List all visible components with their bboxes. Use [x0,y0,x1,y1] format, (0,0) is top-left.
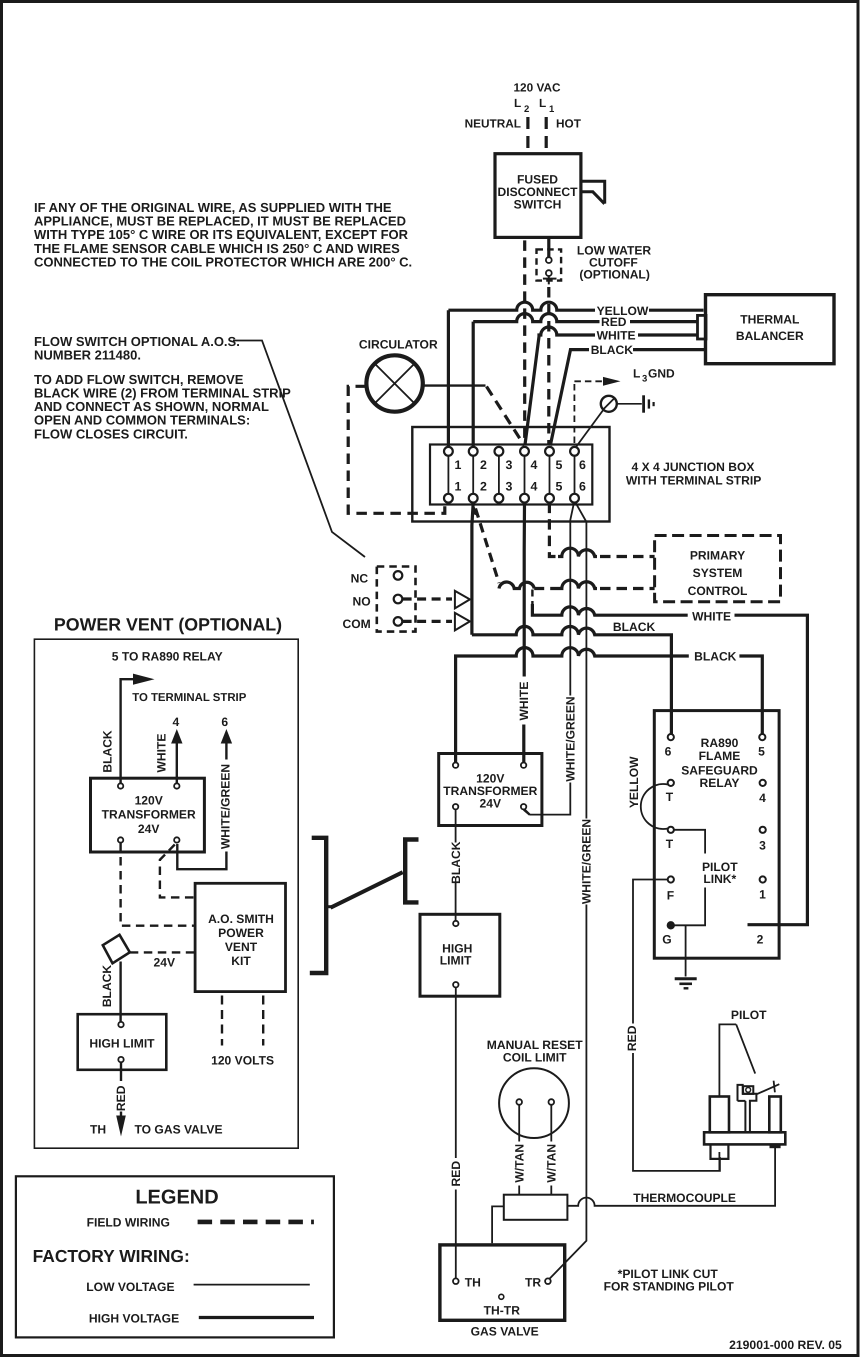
svg-text:CONNECTED TO THE COIL PROTECTO: CONNECTED TO THE COIL PROTECTOR WHICH AR… [34,254,412,269]
svg-text:WHITE/GREEN: WHITE/GREEN [218,764,232,849]
wire white run to RA890 terminal 2 [532,604,807,925]
wire white-green arrow up to 6 [225,742,227,760]
svg-text:1: 1 [759,888,766,902]
pin 5 [759,734,765,740]
wire white arrow up to 4 [176,742,178,784]
power vent high limit terminals [118,1022,123,1027]
svg-text:120 VOLTS: 120 VOLTS [211,1054,274,1068]
svg-text:WHITE: WHITE [692,609,731,623]
ground stud circle [601,396,617,412]
svg-text:4: 4 [531,458,538,472]
svg-text:TH: TH [465,1276,481,1290]
svg-text:POWER VENT (OPTIONAL): POWER VENT (OPTIONAL) [54,615,282,635]
fused disconnect switch box [495,154,581,238]
wire pilot link T to G [674,830,705,926]
pilot left electrode [710,1097,729,1133]
svg-text:BLACK: BLACK [449,841,463,884]
svg-text:RED: RED [449,1161,463,1187]
svg-text:RED: RED [114,1085,128,1111]
low water cutoff float symbol [543,276,557,284]
wire flow-switch dashed diagonal from terminal 2 [476,509,500,584]
svg-text:FACTORY WIRING:: FACTORY WIRING: [33,1246,190,1266]
low water cutoff dashed box [537,249,562,280]
svg-text:5 TO RA890 RELAY: 5 TO RA890 RELAY [112,649,223,663]
svg-text:T: T [666,790,674,804]
wire neutral dashed lead-in [526,117,529,153]
terminal circles bottom row [444,494,453,503]
coil protector terminal block [504,1195,568,1220]
svg-text:SYSTEM: SYSTEM [693,566,743,580]
arrowhead NO [455,591,470,609]
pilot spark electrode [756,1084,779,1094]
svg-text:5: 5 [556,458,563,472]
wire bracket link [331,872,403,908]
wire white-green 1 from terminal 6 to transformer [525,503,575,815]
wire terminal 2 riser to red [472,322,475,446]
switch handle on fused disconnect [581,181,605,204]
power vent high limit box [78,1014,167,1070]
svg-text:VENT: VENT [225,940,258,954]
svg-text:NUMBER 211480.: NUMBER 211480. [34,347,141,362]
wire dashed down to terminal 6 [573,384,575,444]
wire hot dashed lead-in [545,117,548,153]
svg-text:WHITE: WHITE [154,734,168,773]
wire white-green from transformer [177,844,226,869]
svg-text:BALANCER: BALANCER [736,329,804,343]
low water cutoff contact bottom [546,270,552,276]
thermal balancer connector notch [698,315,707,339]
svg-text:FOR STANDING PILOT: FOR STANDING PILOT [604,1280,735,1294]
svg-text:RELAY: RELAY [700,776,740,790]
svg-text:3: 3 [642,374,647,385]
wire W/TAN right [550,1105,552,1195]
pin T upper [668,780,674,786]
svg-text:F: F [667,888,674,902]
circulator motor symbol [366,355,422,411]
manual reset coil limit circle [499,1068,569,1138]
wire NO dashed [403,597,452,600]
pin F [668,876,674,882]
RA890 flame safeguard relay box [654,711,779,959]
wire terminal 4 down to transformer white [522,503,526,763]
svg-text:2: 2 [524,104,529,115]
svg-text:4: 4 [531,480,538,494]
coil limit terminals [516,1099,522,1105]
svg-text:(OPTIONAL): (OPTIONAL) [579,268,650,282]
wire neutral dashed below box [523,240,526,445]
gas valve box [440,1245,565,1320]
high voltage line sample [199,1316,314,1319]
svg-text:W/TAN: W/TAN [512,1144,526,1183]
wire transformer to high limit black [455,826,457,922]
svg-text:BLACK: BLACK [613,620,656,634]
field wiring dashed sample [198,1220,314,1225]
A.O. Smith power vent kit box [195,883,285,991]
junction box terminal strip [430,445,592,505]
svg-text:TH: TH [90,1123,106,1137]
wire terminal 2 down to black run 1 [472,503,473,635]
wire dashed 24V from diamond [130,951,195,953]
svg-text:NC: NC [351,572,369,586]
wire F to thermocouple red [633,880,720,1171]
svg-text:4: 4 [759,791,766,805]
svg-text:5: 5 [758,745,765,759]
terminal TH-TR [499,1294,504,1299]
svg-text:CONTROL: CONTROL [688,584,748,598]
wire into thermocouple stub [718,1152,720,1170]
svg-text:6: 6 [221,715,228,729]
svg-text:4: 4 [173,715,180,729]
svg-text:2: 2 [757,933,764,947]
wire dashed branch to white run [531,590,533,607]
svg-text:3: 3 [506,480,513,494]
svg-text:FLAME: FLAME [699,749,741,763]
svg-text:3: 3 [506,458,513,472]
wire black to terminal strip with arrow [121,679,133,784]
wire W/TAN left [518,1105,520,1195]
svg-text:3: 3 [759,839,766,853]
wire white upper with hop [525,327,595,446]
svg-text:BLACK: BLACK [100,730,114,773]
svg-text:GAS VALVE: GAS VALVE [471,1325,539,1339]
svg-text:W/TAN: W/TAN [545,1144,559,1183]
svg-text:24V: 24V [480,796,502,810]
wire yellow jumper arc T to T [641,784,668,829]
svg-text:6: 6 [579,480,586,494]
svg-text:2: 2 [480,458,487,472]
svg-text:TH-TR: TH-TR [484,1304,521,1318]
ground symbol [617,403,642,405]
svg-text:RED: RED [601,315,627,329]
terminal strip jumper 6 [574,456,576,494]
wire black run 1 with hops to RA890 terminal 6 [472,626,672,734]
wire COM dashed [403,620,452,623]
svg-text:WHITE/GREEN: WHITE/GREEN [564,696,578,781]
svg-text:1: 1 [455,480,462,494]
wire red to gas valve arrow [120,1062,122,1117]
pin G [667,922,674,929]
pin 1 [760,876,766,882]
svg-text:GND: GND [648,367,675,381]
junction box outer [412,427,609,522]
svg-text:6: 6 [665,745,672,759]
terminal COM [394,617,403,626]
terminal NO [394,595,403,604]
svg-text:BLACK: BLACK [694,650,737,664]
svg-text:LINK*: LINK* [703,872,736,886]
pointer line from flow switch note [233,341,365,558]
svg-text:LOW VOLTAGE: LOW VOLTAGE [86,1280,174,1294]
svg-text:120 VAC: 120 VAC [514,81,561,95]
svg-text:SWITCH: SWITCH [514,198,562,212]
arrowhead on terminal 2 [472,504,480,517]
terminal NC [394,571,403,580]
svg-text:T: T [666,837,674,851]
terminal strip jumper 4 [524,456,526,494]
wire black diamond to power vent high limit [119,962,121,1023]
wire red with hops [473,314,599,322]
wire dashed to primary system control lower with hops [499,582,534,588]
pilot igniter body [738,1085,757,1132]
svg-text:TO TERMINAL STRIP: TO TERMINAL STRIP [132,692,247,704]
svg-text:TRANSFORMER: TRANSFORMER [102,808,196,822]
ground symbol below RA890 [675,977,697,980]
svg-text:CIRCULATOR: CIRCULATOR [359,338,438,352]
svg-text:PILOT: PILOT [731,1008,767,1022]
power vent 120V transformer box [91,778,205,852]
high limit terminals [453,921,458,926]
wire coil block to gas valve [492,1206,504,1243]
svg-text:4 X 4 JUNCTION BOX: 4 X 4 JUNCTION BOX [632,460,755,474]
pilot base manifold [704,1132,785,1144]
terminal strip jumper 3 [498,456,500,494]
svg-text:2: 2 [480,480,487,494]
svg-text:THERMOCOUPLE: THERMOCOUPLE [633,1191,736,1205]
svg-text:5: 5 [556,480,563,494]
primary system control dashed box [655,536,781,602]
svg-text:HIGH VOLTAGE: HIGH VOLTAGE [89,1312,179,1326]
wire dashed 120 volts pair [222,996,263,1046]
svg-text:YELLOW: YELLOW [627,756,641,808]
svg-text:120V: 120V [135,794,163,808]
120V transformer box [439,754,542,826]
svg-text:TO GAS VALVE: TO GAS VALVE [135,1123,223,1137]
wire high limit to gas valve TH red [455,987,457,1278]
svg-text:FIELD WIRING: FIELD WIRING [87,1216,170,1230]
svg-text:HOT: HOT [556,117,582,131]
bracket notch [326,905,331,908]
high limit box [420,914,500,996]
svg-text:G: G [662,933,671,947]
power vent transformer terminals [118,783,123,788]
wire terminal 5 dashed down to primary system control upper [549,503,558,557]
terminal TR [545,1278,551,1284]
wire dashed 24V left to A.O. Smith kit [121,843,196,926]
svg-text:L: L [633,367,640,381]
svg-text:WHITE/GREEN: WHITE/GREEN [580,819,594,904]
wire from ground stud to terminal 6 [576,410,604,448]
transformer terminals [453,763,458,768]
svg-text:COIL LIMIT: COIL LIMIT [503,1051,567,1065]
bracket connector right [405,840,418,903]
svg-text:COM: COM [342,617,370,631]
svg-text:1: 1 [549,104,555,115]
wire ground dashed with arrow [574,380,602,382]
pin 4 [760,780,766,786]
svg-text:FLOW CLOSES CIRCUIT.: FLOW CLOSES CIRCUIT. [34,426,188,441]
pilot right electrode [769,1097,781,1133]
svg-text:1: 1 [455,458,462,472]
svg-text:TR: TR [525,1276,541,1290]
pilot right terminal tick [770,1144,781,1148]
svg-text:LEGEND: LEGEND [135,1187,218,1209]
svg-text:WHITE: WHITE [517,682,531,721]
bracket connector left [310,838,326,973]
svg-text:BLACK: BLACK [591,343,634,357]
terminal strip jumper 2 [472,456,474,494]
wire yellow with hops [448,302,595,310]
svg-text:6: 6 [579,458,586,472]
flow switch terminals dashed box [377,567,416,632]
svg-text:PRIMARY: PRIMARY [690,549,745,563]
wire thermocouple with hop [567,1148,775,1206]
pilot pointer bracket [719,1024,755,1096]
legend box [16,1176,334,1337]
svg-text:NEUTRAL: NEUTRAL [465,117,521,131]
svg-text:BLACK: BLACK [100,965,114,1008]
svg-text:HIGH LIMIT: HIGH LIMIT [89,1037,155,1051]
wire circulator dashed diagonal to terminal 4 [487,387,525,446]
arrowhead COM [455,613,470,631]
svg-text:WITH TERMINAL STRIP: WITH TERMINAL STRIP [626,474,762,488]
svg-text:L: L [514,96,521,110]
pin T lower [668,827,674,833]
svg-text:A.O. SMITH: A.O. SMITH [208,912,274,926]
wire ground from G [685,925,687,976]
svg-text:KIT: KIT [231,954,251,968]
terminal circles top row [444,447,453,456]
svg-text:WHITE: WHITE [597,329,636,343]
wire nut diamond [103,935,130,964]
svg-text:NO: NO [353,595,371,609]
svg-text:POWER: POWER [218,926,264,940]
svg-text:219001-000 REV. 05: 219001-000 REV. 05 [729,1338,842,1352]
wire white-green 2 from terminal 6 down to gas valve TR [549,503,587,1280]
svg-text:L: L [539,96,546,110]
wire terminal 1 riser to yellow [447,310,450,446]
thermal balancer box [706,295,835,364]
svg-text:THERMAL: THERMAL [740,312,800,326]
terminal TH [453,1278,459,1284]
wire hot dashed below low water cutoff [547,287,550,445]
svg-text:LIMIT: LIMIT [440,953,472,967]
svg-text:24V: 24V [154,955,176,969]
terminal strip jumper 1 [447,456,449,494]
pin 6 [668,734,674,740]
terminal strip jumper 5 [549,456,551,494]
wire black upper [550,350,589,446]
wire circulator right solid [423,384,486,386]
low water cutoff contact top [546,257,552,263]
wire hot solid stub to low water cutoff [547,239,550,257]
wire circulator field dashed loop to terminal 1 [348,386,445,513]
power vent outline box [34,639,298,1148]
low voltage line sample [194,1284,310,1286]
pilot igniter box [743,1086,753,1094]
transformer terminal stubs [456,754,530,826]
pilot thermocouple stub [711,1145,729,1159]
svg-text:24V: 24V [138,822,160,836]
wire black run 2 from transformer with hops to RA890 terminal 5 [456,648,763,763]
wire dashed 24V right to A.O. Smith kit [160,845,195,898]
svg-text:RED: RED [625,1025,639,1051]
pin 3 [760,827,766,833]
